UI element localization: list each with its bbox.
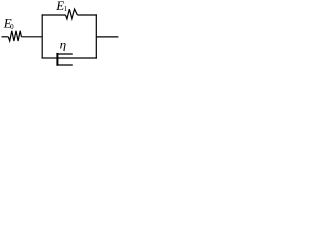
wire top left — [42, 14, 66, 16]
electrode eta bottom arm — [57, 64, 73, 66]
wire right vertical — [95, 14, 97, 58]
electrode eta plate — [56, 53, 58, 66]
resistor E0 — [8, 31, 21, 41]
wire resistor to left node — [21, 36, 42, 38]
wire bottom left — [42, 57, 58, 59]
svg-text:η: η — [60, 37, 67, 51]
wire output — [96, 36, 118, 38]
wire left vertical — [41, 14, 43, 58]
wire bottom right — [57, 57, 97, 59]
svg-text:0: 0 — [10, 23, 14, 31]
resistor E1 — [66, 9, 78, 19]
label E0 — [3, 16, 14, 32]
svg-text:1: 1 — [64, 5, 68, 13]
wire left lead — [2, 36, 9, 38]
label E1 — [55, 0, 67, 13]
electrode eta top arm — [57, 53, 73, 55]
wire top right — [77, 14, 97, 16]
label eta — [60, 37, 67, 51]
